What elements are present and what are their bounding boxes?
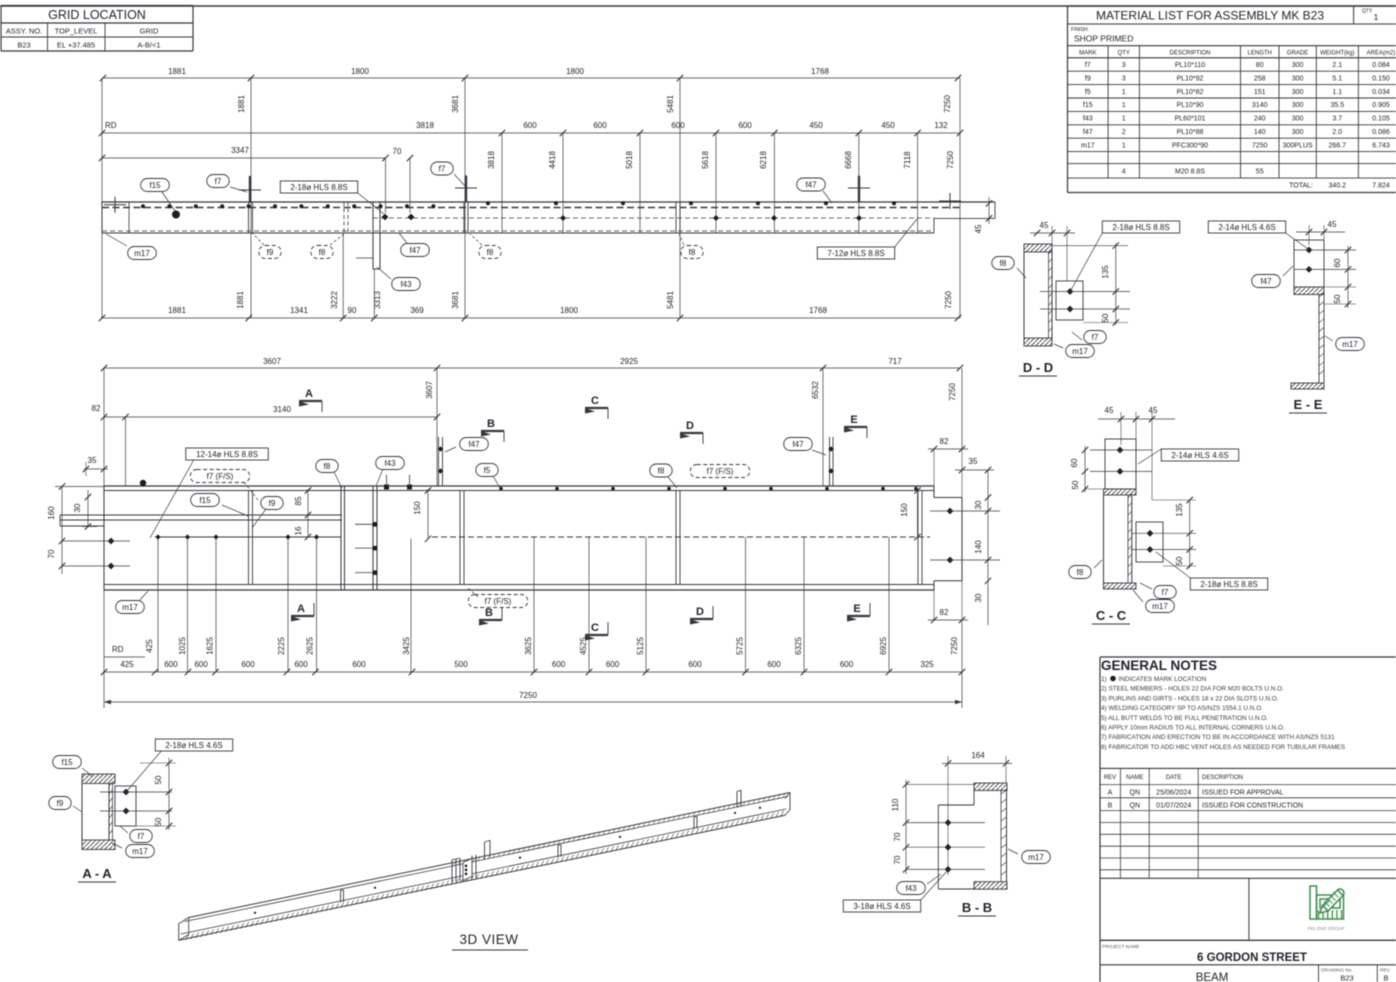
plan beam right end step	[934, 217, 995, 219]
svg-text:300: 300	[1292, 129, 1304, 136]
svg-text:425: 425	[145, 639, 154, 653]
E-E dims 60/50	[1347, 246, 1349, 308]
elevation top flange mark dot	[140, 480, 146, 486]
svg-text:m17: m17	[1072, 347, 1088, 356]
svg-text:ASSY. NO.: ASSY. NO.	[6, 27, 43, 36]
svg-text:A: A	[297, 603, 305, 615]
svg-text:2: 2	[1122, 129, 1126, 136]
svg-text:0.084: 0.084	[1372, 62, 1390, 69]
svg-text:f8: f8	[324, 462, 331, 471]
svg-text:2625: 2625	[306, 637, 315, 655]
svg-text:164: 164	[971, 751, 985, 760]
C-C cleat plate	[1136, 522, 1163, 562]
svg-text:12-14ø HLS 8.8S: 12-14ø HLS 8.8S	[196, 450, 258, 459]
svg-text:2-18ø HLS 8.8S: 2-18ø HLS 8.8S	[1200, 580, 1257, 589]
plan bolt diamonds	[382, 214, 389, 221]
section D-D group	[992, 221, 1180, 376]
svg-text:PL10*88: PL10*88	[1177, 129, 1204, 136]
E-E top plate f47	[1294, 240, 1324, 287]
B-B bolts	[945, 819, 952, 826]
svg-text:3681: 3681	[451, 95, 460, 113]
svg-text:425: 425	[120, 660, 134, 669]
svg-text:B23: B23	[1340, 974, 1353, 982]
svg-text:82: 82	[940, 608, 949, 617]
3d beam bottom flange hatch	[186, 935, 189, 941]
svg-text:600: 600	[767, 660, 781, 669]
svg-text:DESCRIPTION: DESCRIPTION	[1169, 51, 1210, 57]
svg-text:6.743: 6.743	[1372, 142, 1390, 149]
svg-text:0.905: 0.905	[1372, 102, 1390, 109]
svg-text:3: 3	[1122, 75, 1126, 82]
svg-text:82: 82	[940, 437, 949, 446]
svg-text:3818: 3818	[487, 151, 496, 169]
B-B stepped plate outline	[973, 791, 975, 806]
D-D HLS callout	[1102, 221, 1179, 233]
svg-text:TOP_LEVEL: TOP_LEVEL	[55, 27, 98, 36]
svg-text:325: 325	[920, 660, 934, 669]
plan beam outline	[102, 201, 995, 203]
svg-text:PL10*82: PL10*82	[1177, 89, 1204, 96]
elevation splice cluster	[340, 486, 342, 590]
plan f43 connection plates	[372, 202, 374, 269]
svg-text:1881: 1881	[168, 306, 186, 315]
svg-text:5481: 5481	[666, 95, 675, 113]
callout m17 plan	[128, 247, 157, 260]
svg-text:369: 369	[410, 306, 424, 315]
svg-text:4525: 4525	[579, 637, 588, 655]
svg-text:f43: f43	[384, 459, 396, 468]
section C-C group	[1069, 406, 1268, 624]
svg-text:2925: 2925	[620, 357, 638, 366]
plan RD dimension line	[102, 132, 960, 134]
title block project name	[1100, 940, 1396, 982]
svg-text:60: 60	[1333, 258, 1342, 267]
svg-text:D: D	[696, 606, 704, 618]
3d bolt dots	[254, 912, 256, 914]
svg-text:7250: 7250	[519, 691, 537, 700]
svg-text:55: 55	[1256, 169, 1264, 176]
svg-text:16: 16	[294, 526, 303, 535]
callout m17 C-C	[1146, 600, 1175, 613]
svg-text:70: 70	[393, 147, 402, 156]
svg-text:1881: 1881	[236, 291, 245, 309]
svg-text:f5: f5	[484, 466, 491, 475]
svg-text:1): 1)	[1101, 676, 1107, 683]
3d beam long edges	[189, 793, 790, 918]
svg-text:f15: f15	[149, 181, 161, 190]
svg-text:f47: f47	[1083, 129, 1093, 136]
svg-text:A: A	[1108, 790, 1113, 797]
svg-text:70: 70	[47, 549, 56, 558]
svg-text:450: 450	[881, 121, 895, 130]
svg-text:f15: f15	[1083, 102, 1093, 109]
revision table	[1100, 768, 1396, 878]
svg-text:f43: f43	[1083, 116, 1093, 123]
svg-text:AREA(m2): AREA(m2)	[1367, 51, 1396, 57]
svg-text:2) STEEL MEMBERS - HOLES 22 DI: 2) STEEL MEMBERS - HOLES 22 DIA FOR M20 …	[1101, 686, 1284, 693]
svg-text:3.7: 3.7	[1332, 116, 1342, 123]
svg-text:600: 600	[352, 660, 366, 669]
svg-text:B: B	[485, 607, 493, 619]
callout f47 elevation 2	[784, 438, 813, 451]
svg-text:6 GORDON STREET: 6 GORDON STREET	[1197, 952, 1307, 964]
svg-text:1881: 1881	[237, 95, 246, 113]
svg-text:ISSUED FOR CONSTRUCTION: ISSUED FOR CONSTRUCTION	[1202, 803, 1303, 810]
D-D cleat plate	[1056, 281, 1083, 320]
svg-text:300: 300	[1292, 62, 1304, 69]
svg-text:PL10*110: PL10*110	[1175, 62, 1205, 69]
svg-text:f47: f47	[805, 181, 817, 190]
svg-text:LENGTH: LENGTH	[1248, 51, 1272, 57]
callout f7 FS elevation bottom	[468, 595, 528, 608]
svg-text:m17: m17	[1152, 602, 1168, 611]
plan bottom dimension line 1881/1341/90/369/1800/1768	[102, 317, 960, 319]
svg-text:80: 80	[1256, 62, 1264, 69]
svg-text:50: 50	[1175, 556, 1184, 565]
svg-text:30: 30	[974, 500, 983, 509]
callout f47 plan top	[797, 178, 826, 191]
svg-text:300: 300	[1292, 116, 1304, 123]
callout f7 FS elevation mid	[690, 465, 750, 478]
svg-text:3607: 3607	[425, 381, 434, 399]
svg-text:45: 45	[974, 224, 983, 233]
callout 2-18 HLS box plan	[280, 181, 357, 193]
plan weld crosses	[104, 204, 126, 206]
svg-text:PROJECT NAME: PROJECT NAME	[1102, 944, 1140, 950]
svg-text:717: 717	[888, 357, 902, 366]
svg-text:0.034: 0.034	[1372, 89, 1390, 96]
3d stiffener marks	[340, 890, 342, 902]
svg-text:1341: 1341	[290, 306, 308, 315]
svg-text:35: 35	[969, 457, 978, 466]
svg-text:151: 151	[1254, 89, 1266, 96]
svg-text:150: 150	[900, 503, 909, 517]
svg-text:160: 160	[47, 506, 56, 520]
svg-text:50: 50	[1101, 313, 1110, 322]
svg-text:f9: f9	[57, 799, 64, 808]
A-A bolts	[123, 789, 130, 796]
C-C HLS callout top	[1161, 449, 1238, 461]
3d beam top flange hatch right half	[453, 862, 455, 866]
svg-text:E: E	[853, 603, 860, 615]
D-D channel section	[1024, 244, 1052, 252]
elevation total dimension 7250	[104, 701, 962, 703]
callout f8 elevation 1	[316, 460, 338, 473]
svg-text:f9: f9	[267, 248, 274, 257]
svg-text:RD: RD	[105, 121, 117, 130]
svg-text:C: C	[591, 622, 599, 634]
svg-text:1625: 1625	[206, 637, 215, 655]
svg-text:5125: 5125	[636, 637, 645, 655]
svg-text:6325: 6325	[794, 637, 803, 655]
svg-text:C - C: C - C	[1096, 608, 1127, 623]
svg-text:1: 1	[1122, 116, 1126, 123]
B-B left dims 110/70/70	[905, 780, 907, 874]
svg-text:f7 (F/S): f7 (F/S)	[707, 467, 734, 476]
svg-text:5618: 5618	[701, 151, 710, 169]
svg-text:85: 85	[294, 496, 303, 505]
elevation beam right coped end	[933, 486, 935, 498]
svg-text:f8: f8	[658, 467, 665, 476]
callout f47 plan below	[401, 244, 430, 257]
svg-text:600: 600	[164, 660, 178, 669]
svg-text:4: 4	[1122, 169, 1126, 176]
callout 7-12 HLS box plan	[817, 247, 894, 259]
callout f8 D-D	[992, 257, 1014, 270]
svg-text:QTY: QTY	[1362, 9, 1373, 15]
svg-text:5018: 5018	[625, 151, 634, 169]
callout f8 plan dashed 3	[681, 246, 703, 259]
svg-text:B: B	[1108, 803, 1113, 810]
svg-text:2.0: 2.0	[1332, 129, 1342, 136]
svg-text:3347: 3347	[231, 146, 249, 155]
svg-text:1881: 1881	[168, 67, 186, 76]
svg-text:f15: f15	[199, 496, 211, 505]
svg-text:1: 1	[1374, 12, 1379, 22]
svg-text:RD: RD	[112, 645, 124, 654]
svg-text:3-18ø HLS 4.6S: 3-18ø HLS 4.6S	[853, 902, 910, 911]
svg-text:6532: 6532	[811, 381, 820, 399]
D-D bolts	[1067, 288, 1074, 295]
svg-text:2-14ø HLS 4.6S: 2-14ø HLS 4.6S	[1171, 451, 1228, 460]
svg-text:2.1: 2.1	[1332, 62, 1342, 69]
A-A cleat plate	[115, 786, 136, 826]
svg-text:110: 110	[891, 798, 900, 811]
elevation left dims 35/30	[84, 468, 108, 470]
plan beam hidden flange dashed line	[102, 207, 960, 209]
E-E HLS callout	[1208, 221, 1285, 233]
svg-text:f9: f9	[1085, 75, 1091, 82]
plan extension verticals	[101, 78, 103, 318]
svg-text:7250: 7250	[946, 151, 955, 169]
C-C bolts bottom	[1147, 530, 1154, 537]
svg-text:f8: f8	[1077, 568, 1084, 577]
svg-text:0.150: 0.150	[1372, 75, 1390, 82]
D-D right dims 135/50	[1115, 243, 1117, 325]
svg-text:1768: 1768	[811, 67, 829, 76]
svg-text:600: 600	[241, 660, 255, 669]
C-C 45 dims	[1098, 418, 1175, 420]
callout f8 elevation 2	[650, 464, 672, 477]
svg-text:3) PURLINS AND GIRTS - HOLES 1: 3) PURLINS AND GIRTS - HOLES 18 x 22 DIA…	[1101, 695, 1279, 702]
3d mid splice cluster	[451, 860, 453, 883]
svg-text:f47: f47	[1260, 277, 1272, 286]
svg-text:m17: m17	[122, 603, 138, 612]
svg-text:f5: f5	[1085, 89, 1091, 96]
svg-text:4) WELDING CATEGORY SP TO AS/N: 4) WELDING CATEGORY SP TO AS/NZS 1554.1 …	[1101, 705, 1263, 712]
svg-text:GRADE: GRADE	[1287, 51, 1308, 57]
svg-text:INDICATES MARK LOCATION: INDICATES MARK LOCATION	[1119, 676, 1207, 683]
svg-text:3625: 3625	[524, 637, 533, 655]
svg-text:f9: f9	[269, 499, 276, 508]
svg-text:FINISH:: FINISH:	[1071, 27, 1089, 33]
svg-text:m17: m17	[1081, 142, 1095, 149]
svg-text:m17: m17	[132, 847, 148, 856]
svg-text:f47: f47	[468, 440, 480, 449]
svg-text:01/07/2024: 01/07/2024	[1156, 803, 1191, 810]
general notes block	[1100, 657, 1396, 982]
svg-text:MATERIAL LIST FOR ASSEMBLY MK: MATERIAL LIST FOR ASSEMBLY MK B23	[1096, 9, 1324, 23]
svg-text:TOTAL:: TOTAL:	[1289, 183, 1313, 190]
svg-text:1768: 1768	[809, 306, 827, 315]
svg-text:600: 600	[194, 660, 208, 669]
svg-text:NAME: NAME	[1126, 775, 1143, 781]
elevation top flange bolt dots	[499, 487, 918, 491]
svg-text:60: 60	[1070, 458, 1079, 467]
svg-text:600: 600	[523, 121, 537, 130]
callout f5 elevation	[476, 464, 498, 477]
svg-text:600: 600	[593, 121, 607, 130]
elevation beam bottom flange	[104, 584, 934, 586]
svg-text:35: 35	[88, 456, 97, 465]
C-C right dims 135/50	[1189, 500, 1191, 568]
svg-text:300PLUS: 300PLUS	[1283, 142, 1313, 149]
elevation extension stems lower	[410, 539, 412, 672]
svg-text:5) ALL BUTT WELDS TO BE FULL P: 5) ALL BUTT WELDS TO BE FULL PENETRATION…	[1101, 715, 1268, 722]
plan bolt dots on flange line	[141, 204, 145, 208]
svg-text:3607: 3607	[263, 357, 281, 366]
svg-text:ISSUED FOR APPROVAL: ISSUED FOR APPROVAL	[1202, 790, 1284, 797]
3d splice upper tab	[484, 842, 486, 859]
callout f9 plan dashed	[259, 246, 281, 259]
B-B 164 dim	[942, 762, 1012, 764]
svg-text:6668: 6668	[844, 151, 853, 169]
svg-text:7) FABRICATION AND ERECTION TO: 7) FABRICATION AND ERECTION TO BE IN ACC…	[1101, 734, 1335, 741]
svg-text:PL60*101: PL60*101	[1175, 116, 1206, 123]
elevation view group	[47, 357, 1000, 708]
svg-text:f7: f7	[215, 177, 222, 186]
svg-text:450: 450	[809, 121, 823, 130]
callout f8 plan dashed 2	[479, 246, 501, 259]
callout 12-14 HLS box elevation	[186, 448, 269, 460]
svg-text:A: A	[305, 388, 313, 400]
elevation dashed mid line right	[432, 536, 930, 538]
A-A HLS callout	[155, 739, 232, 751]
svg-text:1800: 1800	[560, 306, 578, 315]
grid location table	[1, 6, 193, 52]
svg-text:7250: 7250	[944, 291, 953, 309]
callout f15 A-A	[53, 756, 82, 769]
svg-text:f47: f47	[792, 440, 804, 449]
elevation left end step	[59, 515, 61, 526]
callout m17 D-D	[1066, 345, 1095, 358]
svg-text:140: 140	[1254, 129, 1266, 136]
C-C channel	[1104, 489, 1137, 495]
svg-text:f8: f8	[689, 248, 696, 257]
svg-text:600: 600	[294, 660, 308, 669]
svg-text:QN: QN	[1130, 790, 1141, 797]
callout f7 plan 1	[207, 175, 229, 188]
svg-text:f7 (F/S): f7 (F/S)	[485, 597, 512, 606]
svg-text:PL10*90: PL10*90	[1177, 102, 1204, 109]
B-B channel	[974, 783, 1007, 791]
svg-text:1.1: 1.1	[1332, 89, 1342, 96]
elevation top dimension line 3607/2925/717	[104, 367, 960, 369]
svg-text:BEAM: BEAM	[1196, 972, 1229, 982]
svg-text:45: 45	[1328, 220, 1337, 229]
svg-text:2-18ø HLS 4.6S: 2-18ø HLS 4.6S	[165, 741, 222, 750]
svg-text:f7: f7	[1092, 333, 1099, 342]
callout f9 A-A	[49, 797, 71, 810]
C-C bolts top	[1117, 447, 1124, 454]
svg-text:E - E: E - E	[1294, 397, 1323, 412]
svg-text:GENERAL NOTES: GENERAL NOTES	[1101, 658, 1217, 673]
elevation 82/3140 dimension line	[104, 416, 437, 418]
callout m17 B-B	[1022, 851, 1051, 864]
svg-text:B: B	[1383, 974, 1388, 982]
callout m17 elevation	[116, 601, 145, 614]
svg-text:0.105: 0.105	[1372, 116, 1390, 123]
svg-text:6218: 6218	[759, 151, 768, 169]
callout f7 plan 2	[431, 162, 453, 175]
svg-text:8) FABRICATOR TO ADD HBC VENT: 8) FABRICATOR TO ADD HBC VENT HOLES AS N…	[1101, 744, 1345, 751]
svg-text:f43: f43	[905, 884, 917, 893]
svg-text:7250: 7250	[948, 383, 957, 401]
svg-text:f8: f8	[319, 248, 326, 257]
svg-text:3681: 3681	[451, 291, 460, 309]
section B-B group	[843, 751, 1050, 916]
svg-text:240: 240	[1254, 116, 1266, 123]
plan bottom extension verticals	[342, 233, 344, 318]
callout f47 E-E	[1252, 275, 1281, 288]
svg-text:f43: f43	[400, 280, 412, 289]
3d beam end faces	[179, 918, 189, 924]
svg-text:1800: 1800	[351, 67, 369, 76]
svg-text:MARK: MARK	[1079, 51, 1096, 57]
svg-text:50: 50	[1333, 294, 1342, 303]
svg-text:70: 70	[893, 832, 902, 841]
callout f7 C-C	[1154, 586, 1176, 599]
svg-text:f7: f7	[1085, 62, 1091, 69]
C-C top plate f47	[1105, 439, 1136, 489]
callout f7 FS elevation top	[190, 470, 250, 483]
svg-text:7.824: 7.824	[1372, 183, 1390, 190]
svg-text:500: 500	[454, 660, 468, 669]
callout m17 A-A	[126, 845, 155, 858]
svg-text:600: 600	[738, 121, 752, 130]
svg-text:1: 1	[1122, 142, 1126, 149]
svg-text:6925: 6925	[879, 637, 888, 655]
svg-text:50: 50	[154, 775, 163, 784]
svg-text:5.1: 5.1	[1332, 75, 1342, 82]
svg-text:600: 600	[688, 660, 702, 669]
svg-text:2225: 2225	[277, 637, 286, 655]
svg-text:50: 50	[154, 817, 163, 826]
svg-text:0.086: 0.086	[1372, 129, 1390, 136]
callout f7 A-A	[130, 830, 152, 843]
callout f7 D-D	[1084, 331, 1106, 344]
svg-text:1800: 1800	[566, 67, 584, 76]
svg-text:f7: f7	[1162, 588, 1169, 597]
plan marked location dot	[172, 211, 180, 219]
svg-text:3818: 3818	[416, 121, 434, 130]
E-E 45 dim	[1296, 231, 1345, 233]
svg-text:m17: m17	[134, 249, 150, 258]
3d view group	[179, 790, 790, 950]
svg-text:EL +37.485: EL +37.485	[57, 41, 95, 50]
svg-text:45: 45	[1149, 406, 1158, 415]
svg-text:90: 90	[348, 306, 357, 315]
C-C left dims 60/50	[1084, 446, 1086, 492]
svg-text:132: 132	[934, 121, 948, 130]
A-A dims 50/50	[168, 758, 170, 830]
elevation bottom chain dimension line	[104, 671, 962, 673]
callout m17 E-E	[1336, 338, 1365, 351]
elevation left bolts	[55, 486, 104, 488]
callout f47 elevation 1	[460, 438, 489, 451]
E-E channel below	[1318, 295, 1320, 384]
svg-text:50: 50	[1071, 480, 1080, 489]
